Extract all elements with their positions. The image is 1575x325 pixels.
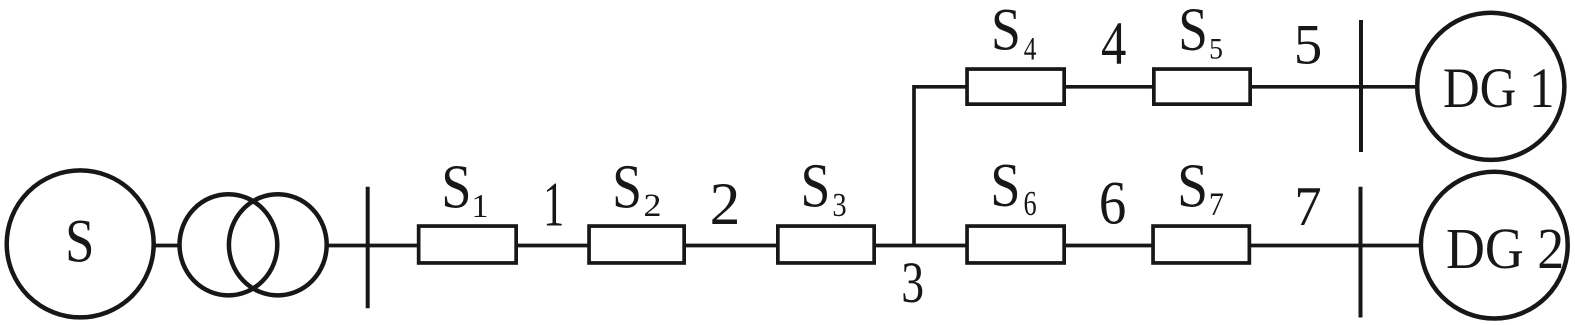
bus bar at node 5 (DG 1) [1359,20,1363,152]
label S1 subscript 1 [471,188,488,225]
transformer T1 (two overlapping circles) [180,194,327,295]
node 1 label [543,169,564,240]
svg-text:7: 7 [1294,175,1321,237]
generator S (source) circle [7,170,154,317]
DG 1 circle [1417,13,1564,160]
node 7 label [1294,175,1321,237]
switch S7 box [1153,226,1249,263]
wire: source S to transformer [80,244,181,248]
switch S3 box [778,226,874,263]
node 5 label [1294,13,1323,76]
label S6 (S) [990,150,1020,219]
svg-text:6: 6 [1024,185,1037,223]
label S1 (S) [441,152,471,221]
svg-text:S: S [801,151,831,221]
label S7 (S) [1177,150,1208,220]
label S5 subscript 5 [1209,32,1223,65]
bus bar at node 7 (DG 2) [1359,187,1363,318]
svg-text:S: S [1178,0,1208,64]
label S2 (S) [612,152,642,222]
svg-text:2: 2 [643,189,661,224]
label S4 (S) [991,0,1021,63]
svg-text:5: 5 [1294,13,1323,76]
label S3 subscript 3 [832,186,846,224]
svg-text:S: S [991,0,1021,63]
label S6 subscript 6 [1024,185,1037,223]
label S3 (S) [801,151,831,221]
svg-text:5: 5 [1209,32,1223,65]
label DG 2 [1446,217,1564,281]
label S7 subscript 7 [1209,186,1224,223]
label S2 subscript 2 [643,189,661,224]
svg-text:S: S [612,152,642,222]
node 4 label [1101,11,1126,79]
svg-text:S: S [441,152,471,221]
svg-text:1: 1 [543,169,564,240]
switch S2 box [589,226,684,263]
switch S5 box [1154,69,1250,104]
DG 2 circle [1421,172,1568,319]
svg-text:S: S [1177,150,1208,220]
label S5 (S) [1178,0,1208,64]
node 2 label [710,172,741,238]
svg-text:S: S [990,150,1020,219]
label S4 subscript 4 [1024,31,1037,67]
svg-text:4: 4 [1024,31,1037,67]
switch S6 box [967,226,1064,263]
node 6 label [1099,169,1126,238]
label DG 1 [1443,56,1555,119]
bus bar after transformer [366,187,370,308]
label S of source [65,208,94,276]
svg-text:3: 3 [901,251,924,316]
junction: branch tee at node 3 [911,242,918,249]
svg-text:DG 1: DG 1 [1443,56,1555,119]
svg-text:4: 4 [1101,11,1126,79]
wire: main feeder from transformer through bus 1, S1, node 1, S2, node 2, S3, node 3, S6, node 6, S7, node 7 to DG 2 [325,244,1494,248]
svg-text:DG 2: DG 2 [1446,217,1564,281]
switch S1 box [419,226,517,263]
svg-text:2: 2 [710,172,741,238]
svg-text:S: S [65,208,94,276]
svg-text:3: 3 [832,186,846,224]
svg-text:1: 1 [471,188,488,225]
svg-text:7: 7 [1209,186,1224,223]
svg-text:6: 6 [1099,169,1126,238]
switch S4 box [967,69,1064,104]
node 3 label [901,251,924,316]
wire: branch from node 3 up and right through S4, node 4, S5, node 5 to DG 1 [914,87,1491,246]
